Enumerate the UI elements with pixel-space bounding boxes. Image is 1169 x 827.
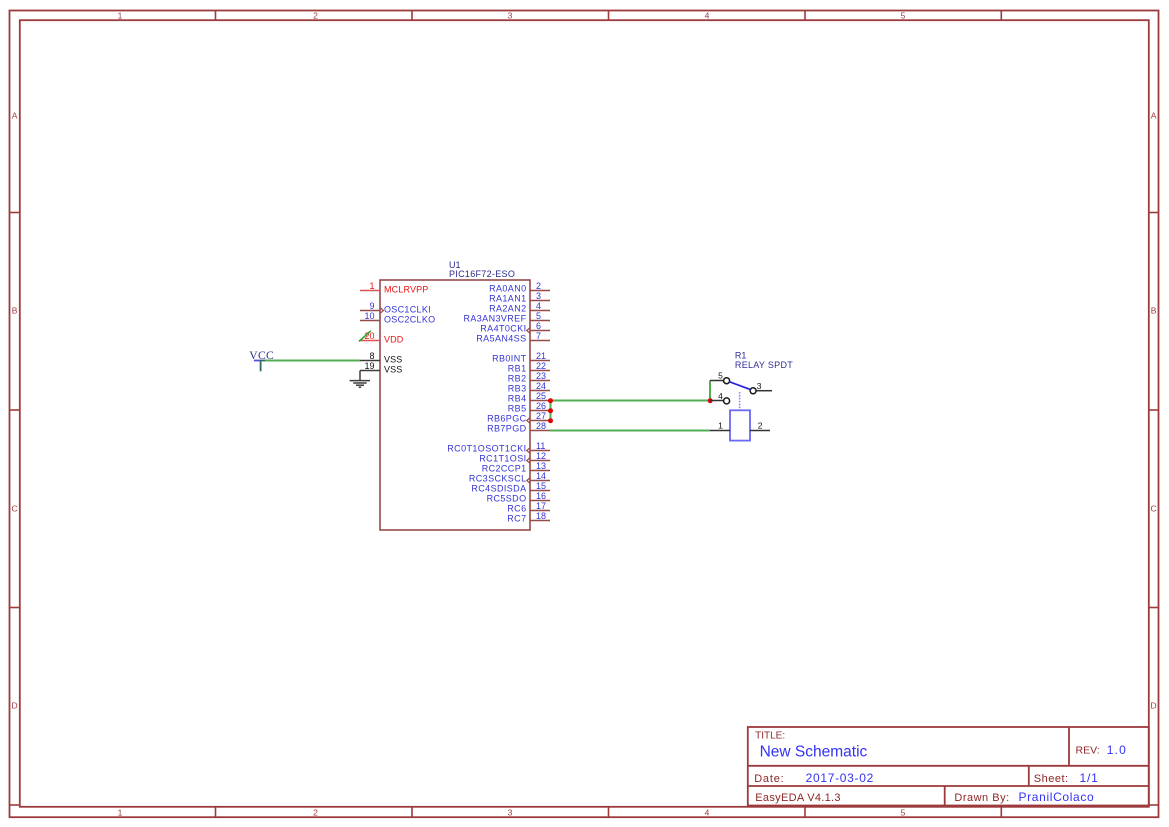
- U1 pin 19 VSS: [360, 361, 402, 374]
- U1 pin 4 RA2AN2: [489, 301, 550, 313]
- junction dot at pin 26: [548, 408, 553, 413]
- svg-text:5: 5: [718, 370, 723, 380]
- U1 pin 5 RA3AN3VREF: [463, 311, 550, 323]
- svg-text:RB0INT: RB0INT: [492, 354, 527, 364]
- U1 pin 6 RA4T0CKI with clock mark: [480, 321, 550, 333]
- wire U1 RB4 pin25 to relay junction: [550, 400, 710, 402]
- U1 pin 8 VSS: [360, 351, 402, 364]
- svg-text:1.0: 1.0: [1107, 743, 1127, 757]
- U1 pin 10 OSC2CLKO: [360, 311, 435, 324]
- svg-text:RB6PGC: RB6PGC: [487, 414, 527, 424]
- bottom ruler ticks: [216, 807, 1002, 817]
- svg-text:A: A: [1151, 110, 1157, 120]
- svg-text:RC2CCP1: RC2CCP1: [482, 464, 527, 474]
- svg-text:MCLRVPP: MCLRVPP: [384, 284, 428, 294]
- svg-text:RB7PGD: RB7PGD: [487, 424, 527, 434]
- svg-text:C: C: [12, 503, 18, 513]
- svg-text:1: 1: [718, 421, 723, 431]
- title block divider Sheet: [1028, 766, 1030, 786]
- relay R1 coil pin 1 stub: [710, 430, 730, 432]
- svg-text:B: B: [1151, 305, 1157, 315]
- svg-text:VDD: VDD: [384, 334, 404, 344]
- title block divider REV: [1068, 727, 1070, 766]
- svg-text:RC5SDO: RC5SDO: [487, 494, 527, 504]
- net flag VCC: [249, 349, 274, 372]
- top ruler numbers: [118, 10, 906, 20]
- svg-text:VSS: VSS: [384, 364, 402, 374]
- relay R1 pin 3 stub: [756, 390, 772, 392]
- svg-text:15: 15: [536, 481, 546, 491]
- svg-text:RC7: RC7: [507, 514, 526, 524]
- junction dot at pin 25: [548, 398, 553, 403]
- title block divider Drawn By: [944, 786, 946, 806]
- junction dot at relay branch: [708, 398, 713, 403]
- U1 pin 21 RB0INT: [492, 351, 550, 363]
- svg-text:2: 2: [313, 10, 318, 20]
- svg-text:3: 3: [536, 291, 541, 301]
- svg-text:22: 22: [536, 361, 546, 371]
- svg-text:12: 12: [536, 451, 546, 461]
- svg-text:10: 10: [364, 311, 374, 321]
- svg-text:Sheet:: Sheet:: [1034, 773, 1069, 785]
- svg-text:1: 1: [118, 10, 123, 20]
- U1 pin 16 RC5SDO: [487, 491, 550, 503]
- U1 pin 13 RC2CCP1: [482, 461, 550, 473]
- svg-text:REV:: REV:: [1076, 744, 1100, 756]
- svg-text:C: C: [1151, 503, 1157, 513]
- svg-text:4: 4: [705, 10, 710, 20]
- relay R1 contact circle pin 4: [724, 398, 730, 404]
- relay R1 coil box: [730, 410, 750, 440]
- U1 pin 3 RA1AN1: [489, 291, 550, 303]
- U1 pin 9 OSC1CLKI: [360, 301, 431, 314]
- svg-text:3: 3: [757, 381, 762, 391]
- svg-text:6: 6: [536, 321, 541, 331]
- svg-text:9: 9: [369, 301, 374, 311]
- relay R1 contact circle pin 3: [750, 388, 756, 394]
- svg-text:RC4SDISDA: RC4SDISDA: [471, 484, 526, 494]
- relay R1 switch blade: [729, 382, 750, 390]
- svg-text:7: 7: [536, 331, 541, 341]
- svg-text:28: 28: [536, 421, 546, 431]
- svg-text:5: 5: [901, 807, 906, 817]
- U1 pin 14 RC3SCKSCL with clock mark: [469, 471, 550, 483]
- svg-text:5: 5: [536, 311, 541, 321]
- svg-text:RC3SCKSCL: RC3SCKSCL: [469, 474, 527, 484]
- top ruler ticks: [216, 11, 1002, 21]
- U1 pin 15 RC4SDISDA: [471, 481, 550, 493]
- wire U1 RB7PGD pin28 to relay coil pin 1: [550, 430, 710, 432]
- svg-text:New Schematic: New Schematic: [760, 744, 868, 761]
- svg-text:RB2: RB2: [508, 374, 527, 384]
- svg-text:VSS: VSS: [384, 354, 402, 364]
- svg-text:14: 14: [536, 471, 546, 481]
- relay R1 contact circle pin 5: [724, 378, 730, 384]
- svg-text:23: 23: [536, 371, 546, 381]
- op-amp U1 body: PIC16F72-ESO IC rectangle: [380, 280, 530, 530]
- svg-text:4: 4: [718, 391, 723, 401]
- U1 pin 17 RC6: [507, 501, 550, 513]
- svg-text:8: 8: [369, 351, 374, 361]
- title block outline: [748, 727, 1149, 806]
- svg-text:B: B: [12, 305, 18, 315]
- svg-text:RB3: RB3: [508, 384, 527, 394]
- svg-text:RELAY SPDT: RELAY SPDT: [735, 360, 793, 370]
- svg-text:19: 19: [364, 361, 374, 371]
- svg-text:RA5AN4SS: RA5AN4SS: [476, 334, 526, 344]
- svg-text:RA0AN0: RA0AN0: [489, 284, 526, 294]
- svg-text:26: 26: [536, 401, 546, 411]
- svg-text:1/1: 1/1: [1080, 771, 1099, 785]
- svg-text:RA1AN1: RA1AN1: [489, 294, 526, 304]
- svg-text:RB5: RB5: [508, 404, 527, 414]
- svg-text:11: 11: [536, 441, 545, 451]
- U1 pin 26 RB5: [508, 401, 550, 413]
- left ruler ticks: [10, 213, 20, 806]
- right ruler ticks: [1149, 213, 1159, 806]
- svg-text:PIC16F72-ESO: PIC16F72-ESO: [449, 269, 515, 279]
- junction dot at pin 27: [548, 418, 553, 423]
- svg-text:1: 1: [118, 807, 123, 817]
- svg-text:Date:: Date:: [754, 773, 784, 785]
- svg-text:RC6: RC6: [507, 504, 526, 514]
- svg-text:2: 2: [313, 807, 318, 817]
- U1 pin 20 VDD with green no-connect slash: [359, 331, 404, 345]
- svg-text:RC1T1OSI: RC1T1OSI: [479, 454, 526, 464]
- U1 pin 25 RB4: [508, 391, 550, 403]
- U1 pin 23 RB2: [508, 371, 550, 383]
- svg-text:RA4T0CKI: RA4T0CKI: [480, 324, 526, 334]
- U1 pin 12 RC1T1OSI with clock mark: [479, 451, 550, 463]
- svg-text:RA3AN3VREF: RA3AN3VREF: [463, 314, 526, 324]
- U1 pin 27 RB6PGC with clock mark: [487, 411, 550, 423]
- svg-text:OSC1CLKI: OSC1CLKI: [384, 304, 431, 314]
- svg-text:24: 24: [536, 381, 546, 391]
- title block row line 1: [748, 765, 1149, 767]
- relay R1 pin 5 stub: [710, 380, 724, 382]
- svg-text:5: 5: [901, 10, 906, 20]
- svg-text:RC0T1OSOT1CKI: RC0T1OSOT1CKI: [447, 444, 526, 454]
- svg-text:27: 27: [536, 411, 546, 421]
- U1 pin 2 RA0AN0: [489, 281, 550, 293]
- svg-text:RB4: RB4: [508, 394, 527, 404]
- svg-text:13: 13: [536, 461, 546, 471]
- svg-text:RB1: RB1: [508, 364, 527, 374]
- U1 pin 11 RC0T1OSOT1CKI with clock mark: [447, 441, 550, 453]
- relay R1 coil pin 2 stub: [750, 430, 770, 432]
- U1 pin 22 RB1: [508, 361, 550, 373]
- svg-text:EasyEDA V4.1.3: EasyEDA V4.1.3: [755, 792, 841, 804]
- svg-text:RA2AN2: RA2AN2: [489, 304, 526, 314]
- wire vertical up to relay pin 5: [709, 381, 711, 401]
- svg-text:D: D: [12, 700, 18, 710]
- U1 pin 7 RA5AN4SS: [476, 331, 550, 343]
- svg-text:TITLE:: TITLE:: [755, 731, 785, 742]
- title block row line 2: [748, 785, 1149, 787]
- svg-text:2: 2: [758, 421, 763, 431]
- svg-text:PranilColaco: PranilColaco: [1019, 790, 1095, 804]
- U1 pin 28 RB7PGD: [487, 421, 550, 433]
- svg-text:3: 3: [508, 10, 513, 20]
- svg-text:17: 17: [536, 501, 546, 511]
- svg-text:2: 2: [536, 281, 541, 291]
- svg-text:4: 4: [536, 301, 541, 311]
- U1 pin 24 RB3: [508, 381, 550, 393]
- wire VCC to U1 pin 8: [265, 360, 360, 362]
- right ruler letters: [1151, 110, 1157, 710]
- bottom ruler numbers: [118, 807, 906, 817]
- svg-text:18: 18: [536, 511, 546, 521]
- svg-text:3: 3: [508, 807, 513, 817]
- svg-text:2017-03-02: 2017-03-02: [806, 771, 874, 785]
- relay R1 actuator dashed link: [739, 392, 741, 410]
- ground symbol at U1 pin 19: [350, 371, 370, 388]
- svg-text:4: 4: [705, 807, 710, 817]
- left ruler letters: [12, 110, 18, 710]
- svg-text:D: D: [1151, 700, 1157, 710]
- svg-text:Drawn By:: Drawn By:: [954, 792, 1009, 804]
- svg-text:A: A: [12, 110, 18, 120]
- U1 pin 1 MCLRVPP: [360, 281, 428, 294]
- wire vertical tying pins 25,26,27: [550, 401, 552, 421]
- svg-text:21: 21: [536, 351, 546, 361]
- svg-text:OSC2CLKO: OSC2CLKO: [384, 314, 435, 324]
- relay R1 pin 4 stub: [710, 400, 724, 402]
- svg-text:16: 16: [536, 491, 546, 501]
- U1 pin 18 RC7: [507, 511, 550, 523]
- svg-text:1: 1: [369, 281, 374, 291]
- svg-text:25: 25: [536, 391, 546, 401]
